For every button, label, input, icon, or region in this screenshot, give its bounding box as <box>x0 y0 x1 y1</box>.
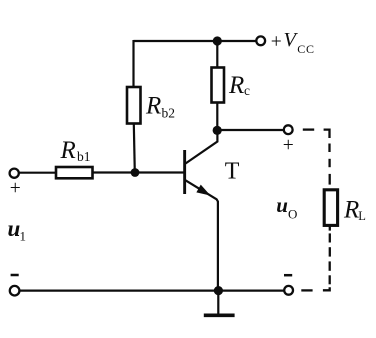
label Rc <box>228 72 250 99</box>
label uo <box>276 193 297 222</box>
node junction collector <box>213 126 222 135</box>
dashed wire RL to output bottom corner <box>329 226 331 231</box>
svg-text:b1: b1 <box>77 149 91 164</box>
svg-text:R: R <box>60 137 76 164</box>
svg-text:CC: CC <box>297 42 314 56</box>
label u1 <box>8 216 27 244</box>
label Rb2 <box>145 92 175 120</box>
svg-text:O: O <box>288 207 297 222</box>
svg-text:u: u <box>276 193 288 217</box>
node junction emitter / ground <box>214 286 223 295</box>
svg-text:L: L <box>358 209 366 223</box>
svg-text:R: R <box>145 92 161 119</box>
ground stem <box>217 291 219 314</box>
wire Rc bottom to collector node <box>216 103 218 131</box>
wire Rb2 top vertical <box>132 40 134 87</box>
terminal input - <box>10 286 20 296</box>
svg-text:T: T <box>225 158 240 184</box>
transistor T collector lead <box>186 131 218 164</box>
svg-text:+: + <box>271 32 282 53</box>
svg-text:+: + <box>283 135 294 156</box>
wire bottom rail <box>19 290 285 292</box>
svg-text:R: R <box>228 72 244 99</box>
transistor T base bar <box>183 150 186 194</box>
label Rb1 <box>60 137 91 164</box>
resistor RL <box>324 190 337 226</box>
terminal +Vcc <box>256 36 265 45</box>
resistor Rc <box>212 68 225 103</box>
transistor T emitter arrow <box>198 186 209 194</box>
svg-text:R: R <box>343 196 359 223</box>
wire Rb1 to base <box>93 171 185 173</box>
transistor T emitter lead <box>186 180 218 291</box>
ground bar <box>204 313 235 317</box>
wire Rc top <box>216 41 218 68</box>
svg-text:c: c <box>244 83 250 98</box>
dashed wire output top to RL corner <box>303 128 314 130</box>
wire top rail <box>134 40 257 42</box>
svg-text:+: + <box>10 178 21 199</box>
label input minus <box>11 274 19 277</box>
wire Rb2 bottom to base node <box>134 124 135 173</box>
terminal output + <box>284 125 293 134</box>
svg-text:b2: b2 <box>162 105 176 120</box>
terminal input + <box>10 169 19 178</box>
label +Vcc <box>271 29 315 56</box>
wire collector node to output terminal <box>217 129 284 131</box>
label RL <box>343 196 366 223</box>
resistor Rb1 <box>56 167 93 178</box>
wire input to Rb1 <box>19 172 57 174</box>
svg-text:1: 1 <box>20 229 27 244</box>
node junction base <box>131 168 140 177</box>
label output minus <box>284 274 292 277</box>
resistor Rb2 <box>127 87 141 124</box>
svg-text:V: V <box>284 29 299 51</box>
terminal output - <box>284 286 293 295</box>
node junction top (Vcc rail / Rc) <box>213 36 222 45</box>
